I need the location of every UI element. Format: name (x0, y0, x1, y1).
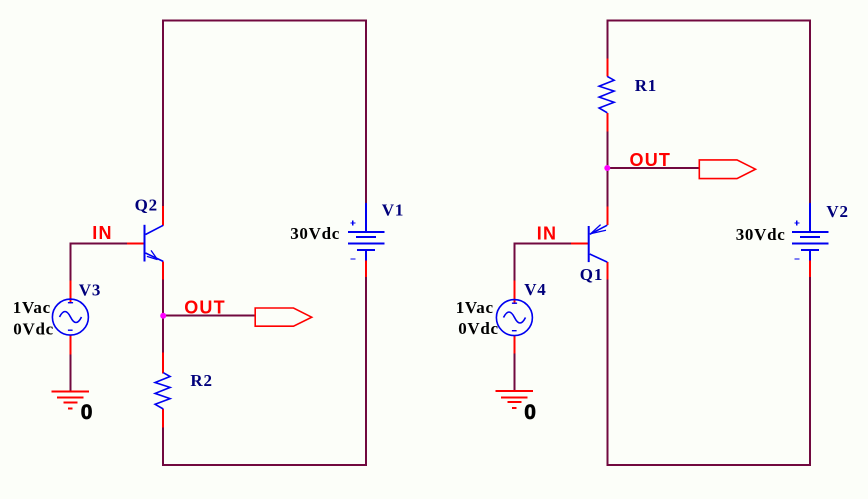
svg-text:1Vac: 1Vac (13, 298, 51, 317)
svg-text:30Vdc: 30Vdc (736, 225, 786, 244)
svg-text:0: 0 (81, 401, 93, 424)
svg-text:V1: V1 (382, 201, 404, 220)
svg-text:OUT: OUT (184, 298, 226, 318)
svg-text:V2: V2 (826, 202, 848, 221)
svg-text:IN: IN (92, 223, 112, 243)
svg-text:OUT: OUT (630, 150, 672, 170)
svg-text:0Vdc: 0Vdc (458, 319, 499, 338)
svg-text:1Vac: 1Vac (456, 298, 494, 317)
svg-text:V4: V4 (524, 280, 546, 299)
svg-text:V3: V3 (79, 280, 101, 299)
svg-text:R2: R2 (190, 371, 212, 390)
svg-text:0: 0 (524, 401, 536, 424)
svg-text:Q2: Q2 (135, 196, 158, 215)
svg-text:30Vdc: 30Vdc (290, 224, 340, 243)
svg-text:0Vdc: 0Vdc (13, 320, 54, 339)
svg-text:IN: IN (537, 223, 557, 243)
svg-text:Q1: Q1 (580, 265, 603, 284)
svg-text:R1: R1 (635, 76, 657, 95)
